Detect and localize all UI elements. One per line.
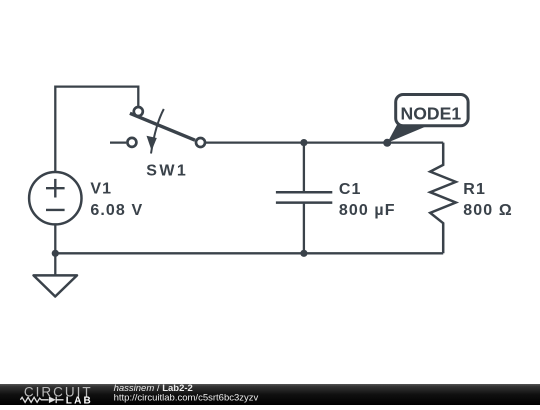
- node NODE1 callout: [387, 95, 468, 143]
- svg-text:SW1: SW1: [146, 163, 188, 180]
- junction dot NODE1: [383, 139, 391, 147]
- svg-text:LAB: LAB: [66, 395, 93, 405]
- footer bar: [0, 384, 540, 405]
- svg-text:NODE1: NODE1: [400, 103, 461, 123]
- svg-text:6.08 V: 6.08 V: [90, 202, 143, 219]
- wire V1 bottom to bottom rail: [54, 224, 56, 253]
- wire bottom rail: [55, 252, 443, 254]
- junction dot C1 top: [300, 139, 307, 146]
- svg-text:V1: V1: [90, 180, 112, 197]
- resistor R1: [430, 143, 456, 254]
- svg-text:800 Ω: 800 Ω: [463, 202, 512, 219]
- switch SW1: [127, 107, 205, 154]
- wire stub left throw of SW1: [110, 141, 126, 143]
- voltage source V1: [29, 172, 81, 224]
- svg-text:C1: C1: [339, 181, 362, 198]
- ground: [34, 275, 78, 296]
- wire from SW1 right throw to node A (top rail): [206, 141, 444, 143]
- wire from V1 top to switch pole: [55, 87, 138, 172]
- svg-text:http://circuitlab.com/c5srt6bc: http://circuitlab.com/c5srt6bc3zyzv: [114, 392, 259, 403]
- wire ground lead: [54, 253, 56, 275]
- svg-text:800 µF: 800 µF: [339, 202, 396, 219]
- capacitor C1: [276, 143, 332, 254]
- CircuitLab logo: [20, 384, 93, 406]
- junction dot C1 bottom: [300, 250, 307, 257]
- junction dot at V1 / ground / bottom rail: [52, 250, 59, 257]
- svg-text:R1: R1: [463, 181, 486, 198]
